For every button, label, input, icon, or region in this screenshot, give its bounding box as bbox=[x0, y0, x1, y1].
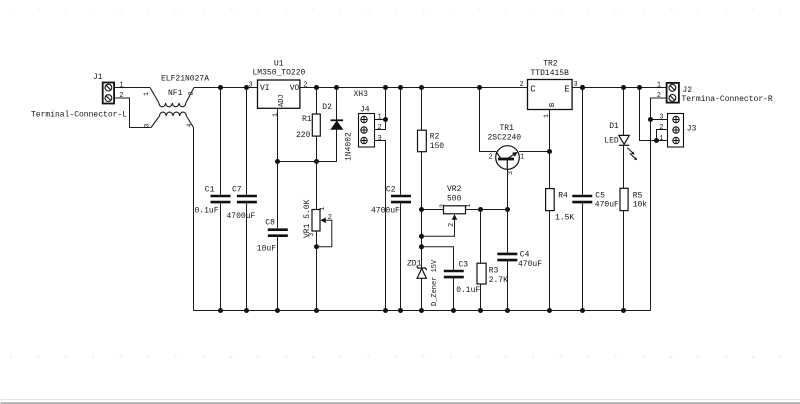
junction dot C5 bottom bbox=[580, 308, 585, 313]
junction dot VR1 bottom bbox=[314, 308, 319, 313]
junction dot TR1 base node right bbox=[505, 207, 510, 212]
wire J4 pin3 to ground bbox=[375, 141, 386, 311]
junction dot C8 bottom bbox=[275, 308, 280, 313]
wire J2 pin2 to ground bbox=[651, 98, 667, 311]
svg-text:2: 2 bbox=[489, 154, 493, 162]
junction dot R2 bottom node bbox=[419, 207, 424, 212]
svg-text:R3: R3 bbox=[489, 267, 499, 276]
potentiometer VR1 bbox=[312, 210, 332, 247]
junction dot ZD1 bottom bbox=[419, 308, 424, 313]
svg-text:3: 3 bbox=[439, 204, 446, 208]
wire top rail NF1 to U1 VI bbox=[194, 87, 258, 89]
svg-text:4700uF: 4700uF bbox=[371, 207, 400, 216]
inductor NF1 common-mode choke bbox=[150, 88, 194, 128]
resistor R5 bbox=[620, 188, 628, 210]
capacitor C2 bbox=[391, 196, 411, 202]
wire top rail U1 VO to TR2 C bbox=[300, 87, 528, 89]
wire C1 branch bbox=[220, 88, 222, 311]
svg-text:ZD1: ZD1 bbox=[407, 260, 422, 269]
svg-text:0.1uF: 0.1uF bbox=[456, 286, 480, 295]
wire TR2 base R4 bbox=[549, 110, 551, 311]
svg-text:2: 2 bbox=[303, 82, 307, 90]
svg-text:2SC2240: 2SC2240 bbox=[488, 134, 522, 143]
wire R3 leads bbox=[480, 210, 482, 311]
wire C5 branch bbox=[582, 88, 584, 311]
capacitor C7 bbox=[237, 196, 257, 202]
junction dot VR1 wiper node bbox=[314, 244, 319, 249]
svg-text:U1: U1 bbox=[274, 60, 284, 69]
wire J1 pin2 loop to NF1 pin3 bbox=[114, 98, 151, 128]
resistor R1 bbox=[312, 114, 320, 136]
wire C4 branch bbox=[507, 210, 509, 311]
svg-text:J2: J2 bbox=[682, 86, 692, 95]
wire D2 leads bbox=[336, 88, 338, 162]
resistor R2 bbox=[418, 130, 427, 152]
wire ground rail bbox=[194, 310, 651, 312]
wire J3 pin2 loop bbox=[657, 130, 668, 141]
svg-text:1N4002: 1N4002 bbox=[345, 132, 354, 161]
capacitor C5 bbox=[572, 196, 592, 202]
wire C7 branch bbox=[246, 88, 248, 311]
junction dot C7 top bbox=[244, 85, 249, 90]
junction dot J3 pin1 rail bbox=[637, 85, 642, 90]
wire NF1 pin4 down to ground rail bbox=[193, 128, 195, 311]
wire ADJ node horizontal bbox=[278, 161, 337, 163]
svg-text:XH3: XH3 bbox=[354, 90, 369, 99]
wire TR1 base down bbox=[507, 169, 509, 209]
junction dot R5 bottom bbox=[621, 308, 626, 313]
svg-text:4700uF: 4700uF bbox=[227, 212, 256, 221]
transistor TR2 body bbox=[528, 80, 573, 110]
svg-text:LM350_TO220: LM350_TO220 bbox=[253, 69, 306, 78]
svg-text:D1: D1 bbox=[609, 122, 619, 131]
junction dot TR2 base node bbox=[547, 149, 552, 154]
wire top rail TR2 E to J2 pin1 bbox=[572, 87, 667, 89]
svg-text:J4: J4 bbox=[360, 106, 370, 115]
connector J3 body bbox=[668, 114, 684, 148]
junction dot C4 bottom bbox=[505, 308, 510, 313]
svg-text:470uF: 470uF bbox=[595, 201, 619, 210]
svg-text:0.1uF: 0.1uF bbox=[195, 207, 219, 216]
svg-text:3: 3 bbox=[659, 114, 663, 122]
svg-text:NF1: NF1 bbox=[168, 89, 183, 98]
connector J4 body bbox=[359, 114, 375, 148]
capacitor C4 bbox=[497, 254, 517, 260]
junction dot C2 top bbox=[398, 85, 403, 90]
svg-text:D2: D2 bbox=[322, 103, 332, 112]
resistor R4 bbox=[546, 189, 555, 211]
svg-text:3: 3 bbox=[378, 135, 382, 143]
wire R1 leads bbox=[316, 88, 318, 162]
svg-text:220: 220 bbox=[296, 131, 311, 140]
svg-text:3: 3 bbox=[574, 81, 578, 89]
svg-text:TR2: TR2 bbox=[543, 60, 558, 69]
svg-text:3: 3 bbox=[507, 171, 514, 175]
junction dot C1 bottom bbox=[218, 308, 223, 313]
junction dot VR2 wiper node bbox=[419, 234, 424, 239]
svg-text:150: 150 bbox=[430, 142, 445, 151]
capacitor C8 bbox=[268, 230, 288, 236]
LED D1 emission arrowheads bbox=[631, 151, 637, 160]
wire top rail J1 to NF1 bbox=[114, 87, 150, 89]
svg-text:ADJ: ADJ bbox=[278, 94, 286, 107]
junction dot C7 bottom bbox=[244, 308, 249, 313]
svg-text:3: 3 bbox=[308, 233, 315, 237]
junction dot R1 top bbox=[314, 85, 319, 90]
svg-text:2.7K: 2.7K bbox=[489, 276, 508, 285]
wire J4 pins1-2 drop bbox=[375, 88, 386, 130]
wire C8 branch bbox=[277, 162, 279, 311]
svg-text:J3: J3 bbox=[687, 125, 697, 134]
svg-text:C8: C8 bbox=[265, 219, 275, 228]
junction dot TR1 collector rail bbox=[477, 85, 482, 90]
svg-text:4: 4 bbox=[186, 124, 193, 128]
junction dot R3 bottom bbox=[478, 308, 483, 313]
capacitor C3 bbox=[444, 271, 464, 277]
junction dot J3 pin2 join bbox=[654, 138, 659, 143]
wire C2 branch bbox=[400, 88, 402, 311]
svg-text:R1: R1 bbox=[302, 115, 312, 124]
junction dot C5 top bbox=[580, 85, 585, 90]
junction dot C3 node bbox=[419, 244, 424, 249]
svg-text:10uF: 10uF bbox=[257, 245, 276, 254]
svg-text:TTD1415B: TTD1415B bbox=[531, 69, 570, 78]
wire TR1 collector from rail bbox=[480, 88, 497, 152]
svg-text:1: 1 bbox=[378, 114, 382, 122]
junction dot R2 top bbox=[419, 85, 424, 90]
wire J4 pin1 stub bbox=[375, 119, 386, 121]
svg-text:1: 1 bbox=[319, 207, 326, 211]
svg-text:2: 2 bbox=[328, 214, 332, 222]
svg-text:C5: C5 bbox=[595, 192, 605, 201]
wire C3 branch bbox=[422, 247, 454, 311]
svg-text:C1: C1 bbox=[205, 186, 215, 195]
junction dot TR1 base node left bbox=[478, 207, 483, 212]
junction dot D2 top bbox=[334, 85, 339, 90]
svg-text:2: 2 bbox=[659, 124, 663, 132]
junction dot R4 bottom bbox=[547, 308, 552, 313]
svg-text:500: 500 bbox=[447, 195, 462, 204]
connector J1 body bbox=[103, 83, 114, 104]
svg-text:2: 2 bbox=[520, 81, 524, 89]
junction dot J3 pin3 bbox=[648, 117, 653, 122]
wire D1 R5 branch bbox=[623, 88, 625, 311]
svg-text:1: 1 bbox=[465, 204, 472, 208]
svg-text:2: 2 bbox=[378, 124, 382, 132]
svg-text:2: 2 bbox=[657, 92, 661, 100]
svg-text:R5: R5 bbox=[633, 192, 643, 201]
svg-text:1: 1 bbox=[520, 154, 524, 162]
junction dot R1 bottom node bbox=[314, 159, 319, 164]
svg-text:2: 2 bbox=[188, 92, 195, 96]
svg-text:1: 1 bbox=[659, 135, 663, 143]
svg-text:C3: C3 bbox=[459, 261, 469, 270]
svg-text:1: 1 bbox=[272, 113, 279, 117]
svg-text:3: 3 bbox=[249, 82, 253, 90]
connector J2 body bbox=[667, 83, 679, 103]
potentiometer VR2 bbox=[444, 206, 466, 220]
junction dot TR2 E rail bbox=[580, 85, 585, 90]
svg-text:Terminal-Connector-L: Terminal-Connector-L bbox=[31, 111, 127, 120]
svg-text:470uF: 470uF bbox=[518, 260, 542, 269]
regulator U1 body bbox=[258, 80, 300, 108]
svg-text:VR1 5.0K: VR1 5.0K bbox=[303, 199, 312, 238]
junction dot ADJ node bbox=[275, 159, 280, 164]
resistor R3 bbox=[477, 263, 486, 284]
svg-text:10k: 10k bbox=[633, 201, 648, 210]
diode D2 bbox=[331, 120, 344, 129]
svg-text:VR2: VR2 bbox=[447, 185, 462, 194]
junction dot C2 bottom bbox=[398, 308, 403, 313]
svg-text:C4: C4 bbox=[520, 251, 530, 260]
wire J3 pin3 stub bbox=[651, 119, 668, 121]
wire J3 pin1 to rail bbox=[640, 88, 668, 141]
LED D1 bbox=[619, 135, 635, 158]
svg-text:E: E bbox=[564, 85, 569, 95]
zener diode ZD1 bbox=[417, 266, 427, 279]
svg-text:VI: VI bbox=[260, 84, 270, 93]
svg-text:R2: R2 bbox=[430, 133, 440, 142]
svg-text:R4: R4 bbox=[558, 192, 568, 201]
svg-text:2: 2 bbox=[448, 223, 456, 227]
wire VR1 leads bbox=[316, 162, 318, 311]
svg-text:B: B bbox=[549, 103, 557, 107]
svg-text:C2: C2 bbox=[386, 186, 396, 195]
junction dot J4 pin3 ground bbox=[383, 308, 388, 313]
wire TR1 emitter to TR2 base bbox=[519, 151, 550, 153]
junction dot J4 pin1 bbox=[383, 117, 388, 122]
junction dot C1 top bbox=[218, 85, 223, 90]
junction dot C3 bottom bbox=[451, 308, 456, 313]
junction dot J4 rail bbox=[383, 85, 388, 90]
window bottom border bbox=[1, 399, 800, 400]
svg-text:1: 1 bbox=[543, 114, 550, 118]
faint grid dot row top bbox=[10, 9, 783, 11]
svg-text:C7: C7 bbox=[232, 186, 242, 195]
svg-text:VO: VO bbox=[290, 84, 300, 93]
wire R2 ZD1 branch bbox=[421, 88, 423, 311]
svg-text:TR1: TR1 bbox=[500, 124, 515, 133]
svg-text:D_Zener 15V: D_Zener 15V bbox=[431, 259, 439, 306]
svg-text:Termina-Connector-R: Termina-Connector-R bbox=[682, 95, 773, 104]
svg-text:3: 3 bbox=[144, 124, 151, 128]
svg-text:1.5K: 1.5K bbox=[555, 213, 574, 222]
junction dot D1 top bbox=[621, 85, 626, 90]
capacitor C1 bbox=[211, 196, 231, 202]
svg-text:C: C bbox=[530, 85, 536, 95]
transistor TR1 bbox=[496, 146, 520, 170]
svg-text:2: 2 bbox=[119, 92, 123, 100]
wire VR2 wiper loop bbox=[422, 220, 455, 237]
wire VR2 row bbox=[422, 209, 508, 211]
faint grid dot row bottom bbox=[10, 356, 783, 358]
svg-text:J1: J1 bbox=[93, 73, 103, 82]
svg-text:1: 1 bbox=[143, 92, 150, 96]
svg-text:LED: LED bbox=[604, 137, 619, 146]
svg-text:1: 1 bbox=[657, 82, 661, 90]
wire U1 ADJ pin down bbox=[277, 108, 279, 161]
svg-text:ELF21N027A: ELF21N027A bbox=[161, 75, 209, 84]
svg-text:1: 1 bbox=[119, 82, 123, 90]
